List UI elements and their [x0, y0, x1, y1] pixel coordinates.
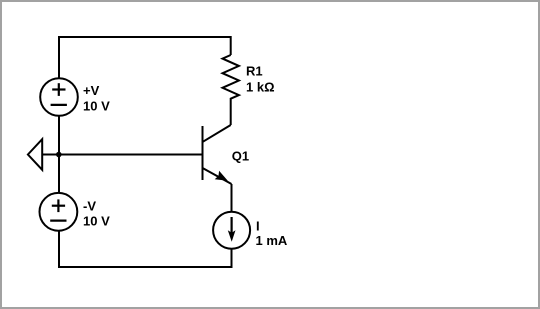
svg-text:I: I — [256, 218, 260, 233]
svg-text:1 mA: 1 mA — [256, 233, 288, 248]
svg-text:+V: +V — [83, 83, 100, 98]
svg-text:-V: -V — [83, 199, 96, 214]
svg-text:R1: R1 — [246, 63, 263, 78]
svg-text:1 kΩ: 1 kΩ — [246, 80, 275, 95]
svg-text:10 V: 10 V — [83, 99, 110, 114]
svg-text:Q1: Q1 — [232, 148, 249, 163]
svg-text:10 V: 10 V — [83, 214, 110, 229]
